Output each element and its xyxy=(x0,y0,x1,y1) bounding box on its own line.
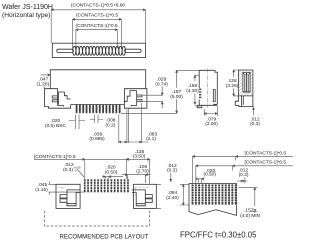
svg-text:(0.50): (0.50) xyxy=(105,169,118,175)
section view hatched body xyxy=(239,70,253,96)
svg-text:RECOMMENDED PCB LAYOUT: RECOMMENDED PCB LAYOUT xyxy=(60,233,149,240)
fpc conductor dot gaps xyxy=(191,186,237,204)
dim line .138 xyxy=(126,158,149,184)
svg-text:(Horizontal type): (Horizontal type) xyxy=(2,12,50,19)
svg-text:(0.5) BSC: (0.5) BSC xyxy=(45,123,67,129)
front view right block clip xyxy=(124,91,142,107)
svg-text:(CONTACTS-1)*0.5+6.60: (CONTACTS-1)*0.5+6.60 xyxy=(71,2,125,8)
dim lines .039 xyxy=(119,110,127,144)
svg-text:(4.30): (4.30) xyxy=(186,88,199,94)
dim line tier3 xyxy=(76,29,117,49)
side view centerline xyxy=(207,69,209,108)
pcb pads dot gaps xyxy=(83,182,129,190)
fpc dim line .094 xyxy=(180,184,189,205)
svg-text:(CONTACTS-1)*0.5: (CONTACTS-1)*0.5 xyxy=(75,23,117,29)
fpc dim leader .012 right xyxy=(237,177,248,183)
top view contact ovals xyxy=(73,46,126,55)
svg-text:[CONTACTS-1]*0.5: [CONTACTS-1]*0.5 xyxy=(245,160,287,166)
dim line .197 xyxy=(121,70,199,113)
svg-text:(4.0) MIN: (4.0) MIN xyxy=(240,213,260,219)
dim line tier1 xyxy=(51,9,145,43)
svg-text:(5.00): (5.00) xyxy=(170,94,183,100)
fpc dim leader .012 left xyxy=(170,173,172,182)
dim leader .047 xyxy=(41,74,51,88)
svg-text:(3.25): (3.25) xyxy=(226,83,239,89)
fpc dim line .020 xyxy=(196,178,204,183)
pcb left block clip xyxy=(60,190,80,206)
dim lines .008 xyxy=(90,115,103,124)
svg-text:(0.2): (0.2) xyxy=(105,122,115,128)
front view right end block xyxy=(121,89,146,109)
fpc dim line2 xyxy=(196,165,293,184)
front view main body xyxy=(50,70,145,89)
svg-text:(2.1): (2.1) xyxy=(146,136,156,142)
pcb right block ghost lines xyxy=(58,187,150,197)
pcb right block clip xyxy=(132,190,152,206)
dim line .169 xyxy=(194,75,200,106)
pcb ext lines right xyxy=(156,184,161,208)
svg-text:(0.50): (0.50) xyxy=(203,171,216,177)
svg-text:Wafer JS-1190H: Wafer JS-1190H xyxy=(2,4,53,11)
top view left slot xyxy=(57,49,74,52)
dim leader pad width xyxy=(77,169,84,177)
svg-text:.157: .157 xyxy=(244,207,254,213)
pcb left block outline xyxy=(56,184,80,208)
section view foot xyxy=(235,96,253,107)
svg-text:(2.00): (2.00) xyxy=(205,121,218,127)
dim line contacts bottom left xyxy=(34,158,128,179)
dim lines .083 xyxy=(127,103,148,143)
svg-text:(0.985): (0.985) xyxy=(89,136,105,142)
top view right slot xyxy=(125,49,142,52)
svg-text:(2.40): (2.40) xyxy=(166,195,179,201)
fpc conductors xyxy=(192,184,237,205)
svg-text:FPC/FFC t=0.30±0.05: FPC/FFC t=0.30±0.05 xyxy=(180,231,257,240)
side view outline xyxy=(197,70,217,107)
svg-text:(0.3): (0.3) xyxy=(250,121,260,127)
front view pins xyxy=(76,105,121,114)
dim line .106 xyxy=(122,174,151,183)
fpc dim line1 xyxy=(193,155,294,183)
svg-text:(0.3): (0.3) xyxy=(239,172,249,178)
svg-text:(1.15): (1.15) xyxy=(35,187,48,193)
front view left end block xyxy=(45,89,71,109)
svg-text:(CONTACTS-1)*0.5: (CONTACTS-1)*0.5 xyxy=(76,13,118,19)
pcb right block outline xyxy=(133,184,156,208)
svg-text:(1.20): (1.20) xyxy=(37,81,50,87)
svg-text:(0.3): (0.3) xyxy=(167,168,177,174)
section view slot detail xyxy=(243,73,250,93)
dim lines .079 xyxy=(204,106,217,116)
dim line tier2 xyxy=(73,18,122,48)
dim line .128 xyxy=(233,70,239,96)
svg-text:(3.50): (3.50) xyxy=(133,154,146,160)
dim leader .029 xyxy=(161,86,163,108)
svg-text:(0.3): (0.3) xyxy=(63,167,73,173)
dim lines .045 xyxy=(49,181,85,195)
front view bottom edge between blocks xyxy=(71,104,122,106)
side view teeth xyxy=(199,89,201,99)
svg-text:[CONTACTS-1]*0.5: [CONTACTS-1]*0.5 xyxy=(245,150,287,156)
pcb pads xyxy=(84,179,129,192)
svg-text:(0.74): (0.74) xyxy=(155,81,168,87)
dim leader .012 xyxy=(253,107,255,115)
svg-text:–0: –0 xyxy=(74,168,78,172)
fpc cable outline xyxy=(189,184,237,216)
dim lines .020 BSC xyxy=(69,115,85,130)
top view body outline xyxy=(52,43,145,57)
front view right block finger ext lines xyxy=(143,95,163,102)
front view left block clip xyxy=(52,92,70,107)
dashed outline pcb xyxy=(44,211,149,226)
dim line pcb pitch xyxy=(102,176,123,179)
fpc dim line .157 xyxy=(239,188,258,213)
